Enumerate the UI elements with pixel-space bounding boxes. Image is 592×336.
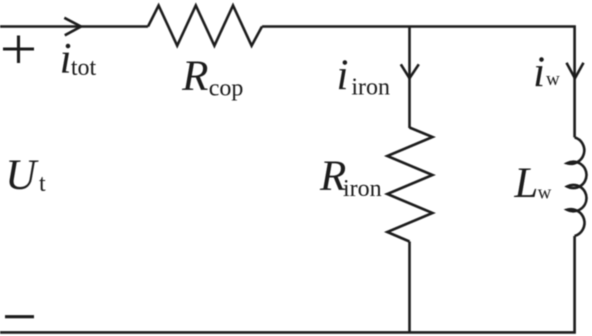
resistor R_cop body (148, 6, 262, 46)
svg-text:i: i (337, 52, 349, 99)
plus terminal (3, 36, 34, 64)
wire middle vertical top (408, 27, 411, 129)
inductor L_w body (567, 137, 586, 236)
svg-text:i: i (533, 49, 545, 96)
arrow i_w (567, 63, 584, 79)
label R_iron (319, 153, 382, 202)
wire top-left segment (0, 25, 148, 28)
arrow i_iron (401, 64, 419, 78)
svg-text:U: U (5, 152, 39, 199)
label i_tot (60, 35, 97, 82)
svg-text:iron: iron (351, 74, 390, 100)
minus terminal (5, 315, 34, 318)
svg-text:t: t (39, 171, 46, 197)
svg-text:w: w (546, 69, 560, 90)
label R_cop (181, 53, 243, 102)
svg-text:w: w (538, 183, 552, 204)
label i_iron (337, 52, 391, 100)
label U_t (5, 152, 46, 199)
svg-text:cop: cop (209, 76, 244, 102)
wire top-middle to top-right corner and down (262, 27, 575, 138)
svg-text:tot: tot (71, 55, 97, 81)
wire right-bottom and bottom wire (0, 236, 575, 332)
arrow i_tot (64, 18, 81, 36)
label L_w (513, 160, 551, 207)
svg-text:iron: iron (343, 176, 382, 202)
svg-text:i: i (60, 35, 72, 82)
svg-text:L: L (513, 160, 538, 207)
svg-text:R: R (181, 53, 208, 100)
resistor R_iron body (387, 128, 432, 242)
wire middle vertical bottom (408, 242, 411, 333)
label i_w (533, 49, 560, 96)
